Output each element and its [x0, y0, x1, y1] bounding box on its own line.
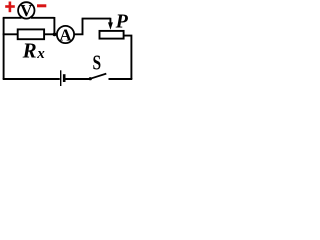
switch S pivot dot — [89, 77, 92, 80]
ammeter A1 — [57, 26, 74, 43]
battery B1 short plate — [63, 74, 66, 82]
wire battery to switch — [66, 78, 91, 80]
wire top run to wiper — [82, 18, 111, 20]
svg-text:P: P — [115, 10, 129, 32]
wire left vertical — [3, 18, 5, 79]
voltmeter V1 — [18, 2, 34, 18]
svg-text:R: R — [22, 38, 37, 62]
wire bottom left run — [3, 78, 60, 80]
wire voltmeter branch drop — [53, 17, 55, 34]
wire voltmeter right lead — [31, 17, 54, 19]
wire voltmeter left lead — [3, 17, 22, 19]
voltmeter minus terminal mark — [37, 4, 46, 7]
wire rheostat right stub and right vertical — [125, 36, 132, 79]
svg-text:x: x — [36, 46, 45, 62]
resistor Rx — [18, 29, 44, 39]
svg-text:S: S — [93, 51, 102, 75]
rheostat P body — [100, 31, 124, 39]
wire resistor left lead — [3, 33, 18, 35]
wire bottom right run — [109, 78, 133, 80]
voltmeter plus terminal mark — [5, 2, 15, 13]
wire resistor to junction — [45, 33, 57, 35]
battery B1 long plate — [60, 70, 62, 86]
switch S blade — [90, 74, 106, 79]
node junction dot — [53, 33, 57, 37]
rheostat wiper arrow — [109, 18, 111, 24]
wire ammeter right lead — [75, 19, 83, 35]
svg-text:A: A — [59, 25, 72, 44]
